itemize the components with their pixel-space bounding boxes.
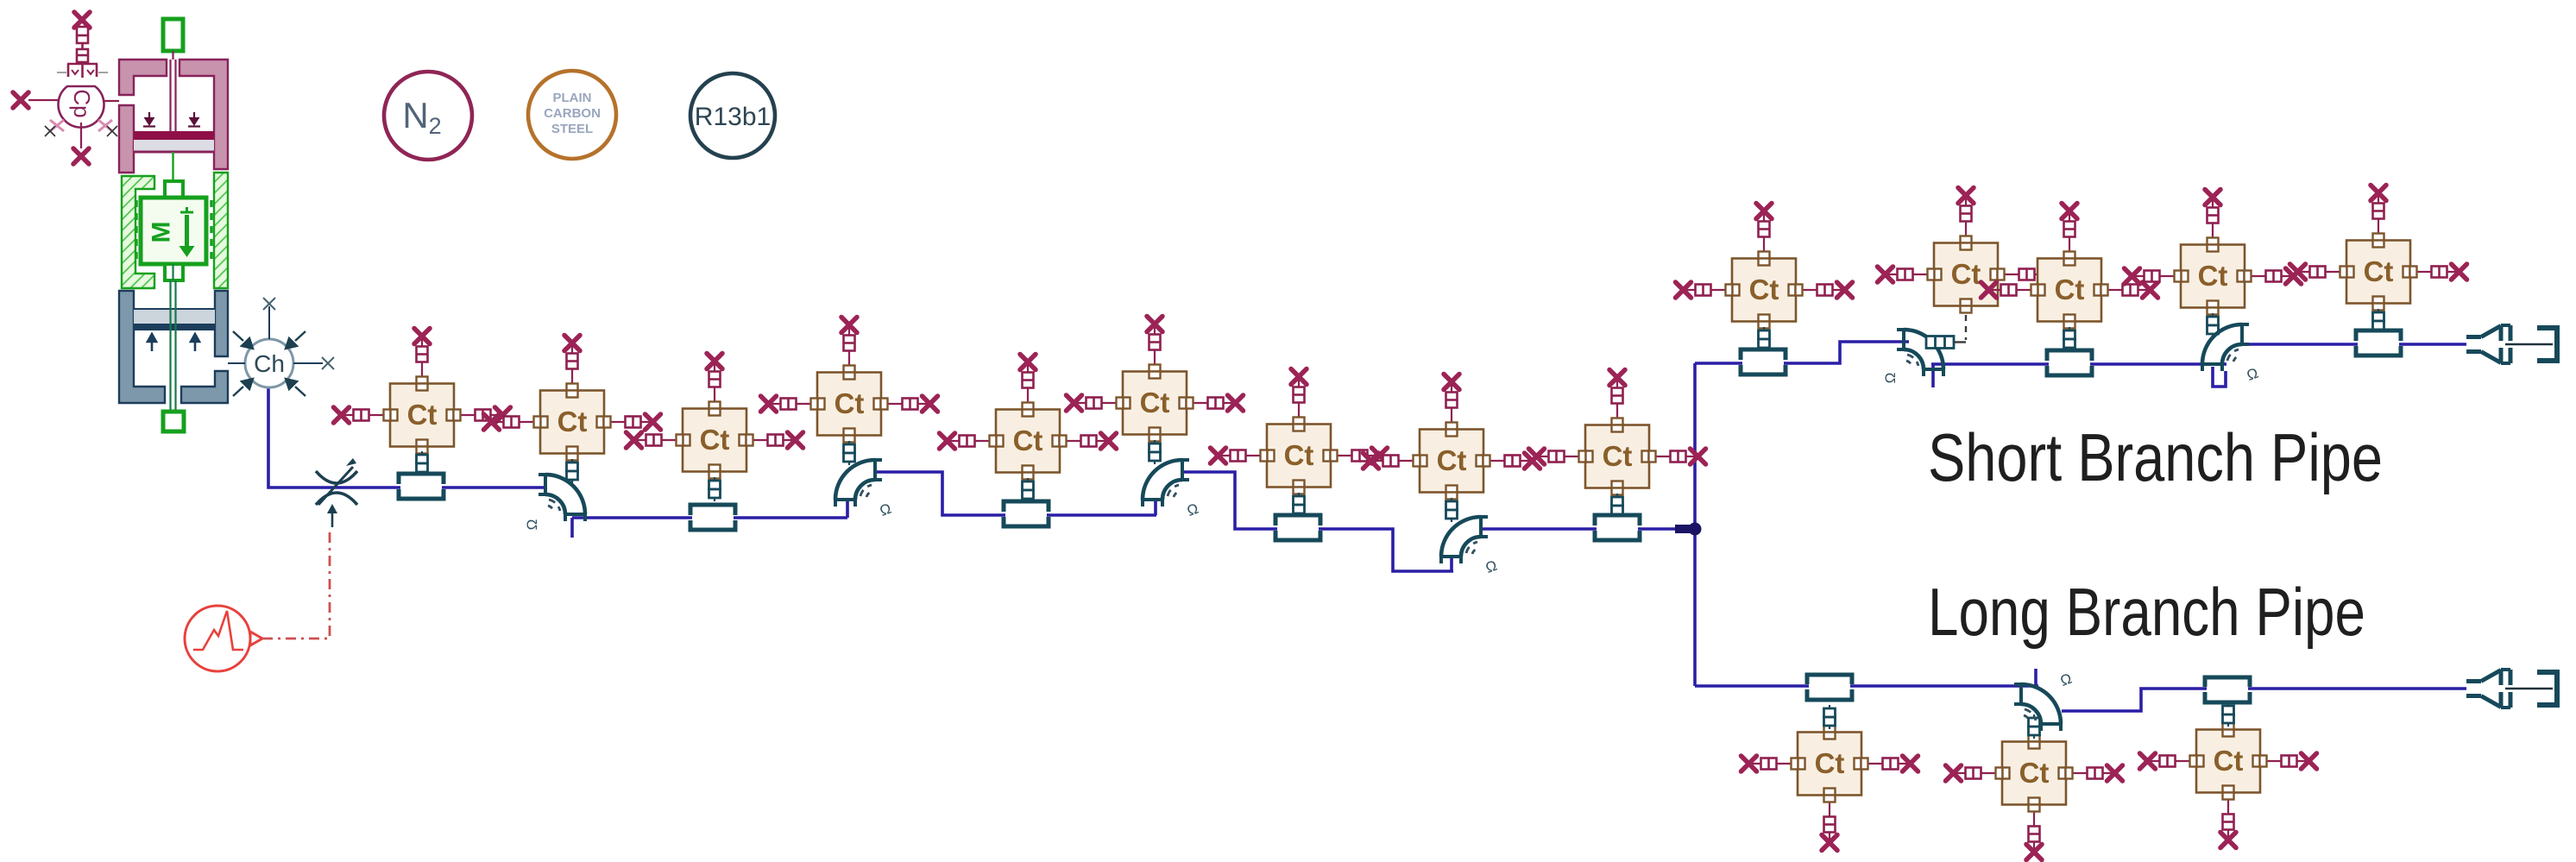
svg-text:Ω: Ω <box>2058 670 2074 689</box>
thermal capacity Ct7 <box>1211 369 1388 518</box>
wire elbow E2 exit to elbow E3 <box>1182 472 1453 571</box>
elbow bend E2 (Ω) <box>1143 460 1200 519</box>
thermal capacity Ct13 <box>2125 190 2302 338</box>
nozzle outlet 1 (short branch) <box>2466 325 2510 363</box>
mass with spring walls (green) <box>122 173 228 288</box>
thermal capacity Ct10 <box>1676 204 1853 352</box>
signal source (pulse generator) <box>185 606 262 671</box>
wire elbow S2 exit to nozzle 1 <box>2242 343 2466 346</box>
chamber bleed arrows <box>143 112 200 127</box>
thermal capacity Ct9 <box>1529 370 1706 519</box>
pneumatic chamber (pink cylinder) <box>119 60 228 173</box>
material circle PLAIN CARBON STEEL <box>528 71 616 159</box>
svg-text:Ω: Ω <box>524 519 540 531</box>
configuration circle R13b1 <box>690 73 775 158</box>
straight pipe P9 <box>1807 674 1852 700</box>
wire from chamber Ch down to supply line <box>268 387 546 488</box>
svg-text:M: M <box>148 222 176 243</box>
straight pipe P6 <box>1741 349 1786 375</box>
straight pipe P5 <box>1595 515 1640 541</box>
svg-text:PLAIN: PLAIN <box>553 91 592 105</box>
wire elbow E3 exit to junction <box>1481 527 1690 531</box>
wire elbow S1 exit to elbow S2 <box>1931 364 2226 387</box>
svg-text:Long Branch Pipe: Long Branch Pipe <box>1928 574 2365 650</box>
thermal capacity Ct3 <box>627 354 803 502</box>
svg-text:Ch: Ch <box>254 350 285 377</box>
thermal capacity Ct16 <box>1946 714 2123 860</box>
blue chamber flow arrows <box>148 334 199 351</box>
straight pipe P1 <box>399 474 444 500</box>
pressure sensor Cp circle <box>59 86 104 128</box>
elbow bend S2 (Ω) <box>2202 324 2260 384</box>
svg-text:STEEL: STEEL <box>551 122 593 136</box>
elbow bend E2a (Ω) <box>835 460 893 519</box>
straight pipe P10 <box>2205 676 2250 702</box>
thermal capacity Ct1 <box>334 329 511 476</box>
thermal capacity Ct5 <box>940 355 1117 503</box>
signal wire (dash-dot) <box>262 528 330 639</box>
svg-text:Short Branch Pipe: Short Branch Pipe <box>1928 419 2383 495</box>
wire long branch to elbow L1 <box>1695 669 2038 686</box>
nozzle outlet 2 (long branch) <box>2466 670 2510 708</box>
piston rod lower <box>171 264 176 412</box>
junction node <box>1675 523 1702 536</box>
thermal capacity Ct8 <box>1364 374 1540 523</box>
Cp port lines and crosses <box>28 100 119 148</box>
green connector bottom <box>163 412 184 431</box>
svg-text:Ω: Ω <box>878 500 893 519</box>
thermal capacity Ct11 <box>1878 188 2055 341</box>
elbow bend E1 (Ω) <box>524 475 585 530</box>
Cp intake arrows <box>50 120 112 131</box>
wire junction riser (short/long branch) <box>1693 363 1697 686</box>
straight pipe P8 <box>2356 330 2401 356</box>
thermal capacity Ct17 <box>2140 702 2317 848</box>
plug cap 1 <box>2537 328 2557 361</box>
wire elbow E2a exit to elbow E2 <box>875 472 1156 515</box>
wire elbow L1 exit to nozzle 2 <box>2062 689 2466 711</box>
variable orifice R <box>316 458 357 505</box>
wire short branch to elbow S1 <box>1695 342 1909 363</box>
straight pipe P3 <box>1004 501 1049 527</box>
connection line to plug 1 <box>2505 343 2553 346</box>
svg-text:Ω: Ω <box>1185 500 1200 519</box>
straight pipe P4 <box>1275 515 1320 541</box>
svg-text:Cp: Cp <box>69 89 95 117</box>
thermal capacity Ct4 <box>761 318 938 466</box>
straight pipe P2 <box>690 505 735 531</box>
svg-text:Ω: Ω <box>1882 373 1899 384</box>
plug cap 2 <box>2537 672 2557 705</box>
thermal capacity Ct6 <box>1067 317 1244 465</box>
signal arrow into orifice <box>327 504 337 527</box>
elbow bend S1 (Ω) <box>1882 330 1943 383</box>
thermal capacity Ct2 <box>484 336 661 484</box>
elbow S1 thermal chain to Ct11 <box>1926 337 1966 349</box>
svg-text:Ω: Ω <box>2245 365 2260 384</box>
svg-text:Ω: Ω <box>1483 557 1499 576</box>
pneumatic chamber (blue cylinder) <box>119 291 228 403</box>
svg-text:R13b1: R13b1 <box>695 103 771 131</box>
svg-text:CARBON: CARBON <box>544 106 601 121</box>
green connector top <box>163 19 183 51</box>
Cp spring stack <box>67 27 98 78</box>
gas property circle N2 <box>384 72 472 160</box>
thermal capacity Ct14 <box>2290 186 2467 334</box>
wire elbow E1 exit to elbow E2a <box>572 498 847 538</box>
thermal capacity Ct15 <box>1741 705 1918 851</box>
chamber sensor Ch circle <box>228 306 323 387</box>
elbow bend E3 (Ω) <box>1441 517 1499 576</box>
straight pipe P7 <box>2047 350 2092 376</box>
piston rod upper <box>171 51 176 131</box>
elbow bend L1 (Ω) <box>2014 670 2074 731</box>
Ch thin cross marks <box>263 298 334 369</box>
Ch converge arrows <box>233 331 305 396</box>
mass block M <box>136 152 211 280</box>
connection line to plug 2 <box>2505 688 2553 690</box>
thermal capacity Ct12 <box>1981 204 2158 352</box>
